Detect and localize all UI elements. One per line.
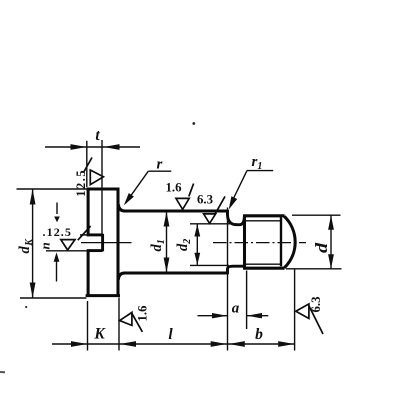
extension line a-right (246, 271, 248, 330)
small dot speck (25, 306, 27, 308)
leader r1: arrowhead (229, 196, 238, 209)
roughness 1.6 shank surface (bottom): triangle (120, 312, 132, 325)
svg-text:r: r (157, 157, 163, 173)
bottom extension line K-right / l-left (118, 298, 120, 351)
roughness 1.6 bottom: slash (132, 313, 143, 332)
leader r: line (126, 171, 149, 203)
extension line b-right (294, 270, 296, 351)
svg-text:K: K (93, 326, 106, 343)
dimension dK line (32, 189, 34, 298)
roughness 12.5 top-left: slash (84, 158, 93, 173)
roughness 6.3 thread: slash (309, 306, 323, 334)
leader r1: line (230, 171, 247, 205)
svg-text:1.6: 1.6 (166, 181, 183, 195)
roughness 12.5 top-left: triangle (90, 170, 103, 185)
head outline (86, 188, 120, 297)
dimension n upper arrow (56, 203, 58, 215)
leader r: arrowhead (124, 193, 134, 205)
dimension b arrows (229, 341, 294, 347)
svg-text:n: n (38, 242, 53, 249)
dimension d2 line (196, 224, 198, 264)
dimension d2 extension lines (190, 223, 237, 225)
dimension d1 line (166, 212, 168, 272)
dimension d2 arrows (194, 224, 200, 265)
svg-text:.12.5: .12.5 (43, 225, 73, 239)
bottom extension line l-right / a-left / b-left (227, 208, 229, 351)
roughness 12.5 slot: triangle (61, 240, 75, 250)
roughness 6.3 thread surface: triangle (296, 304, 309, 319)
dimension a lines (198, 315, 228, 317)
shank d1 outline (118, 204, 227, 279)
dimension d arrows (328, 215, 334, 268)
dimension dK extension lines (17, 188, 87, 190)
svg-text:a: a (232, 301, 240, 317)
dimension t extension lines (86, 141, 88, 187)
stray dot (192, 122, 195, 125)
slot lower extension line (46, 250, 87, 252)
svg-text:1.6: 1.6 (136, 305, 150, 322)
roughness 12.5 slot: slash (78, 226, 91, 240)
dimension K arrow (71, 341, 87, 347)
thread end dome arc (284, 216, 295, 267)
step and relief groove d2 (228, 210, 245, 275)
svg-text:12.5: 12.5 (74, 169, 88, 197)
svg-text:6.3: 6.3 (309, 297, 323, 313)
svg-text:l: l (168, 326, 173, 343)
bottom dimension line K l b (52, 343, 295, 345)
roughness 6.3 groove: slash (215, 196, 225, 213)
thread root lines (245, 220, 282, 222)
thread end chamfer chord (280, 217, 282, 266)
centerline (81, 242, 132, 244)
svg-text:t: t (95, 127, 100, 144)
roughness 1.6 shank: slash (189, 184, 194, 197)
dimension t line (45, 146, 140, 148)
head slot (87, 234, 103, 252)
dimension d extension lines (292, 214, 341, 216)
thread section d (243, 215, 284, 270)
dimension a arrows (212, 313, 262, 318)
edge speck bottom-left (0, 371, 5, 373)
roughness 6.3 groove: triangle (204, 214, 216, 224)
dimension n lower arrow (56, 260, 58, 282)
roughness 1.6 shank: triangle (176, 198, 189, 209)
bottom extension line K-left (87, 301, 89, 351)
dimension dK arrows (30, 189, 36, 298)
slot upper extension stub (80, 234, 87, 236)
svg-text:b: b (255, 326, 263, 343)
dimension d1 arrows (164, 212, 170, 272)
svg-text:d: d (313, 242, 332, 253)
dimension l arrows (120, 341, 227, 347)
dimension d line (330, 215, 332, 268)
dimension t arrows (71, 144, 120, 150)
svg-text:6.3: 6.3 (197, 192, 213, 206)
